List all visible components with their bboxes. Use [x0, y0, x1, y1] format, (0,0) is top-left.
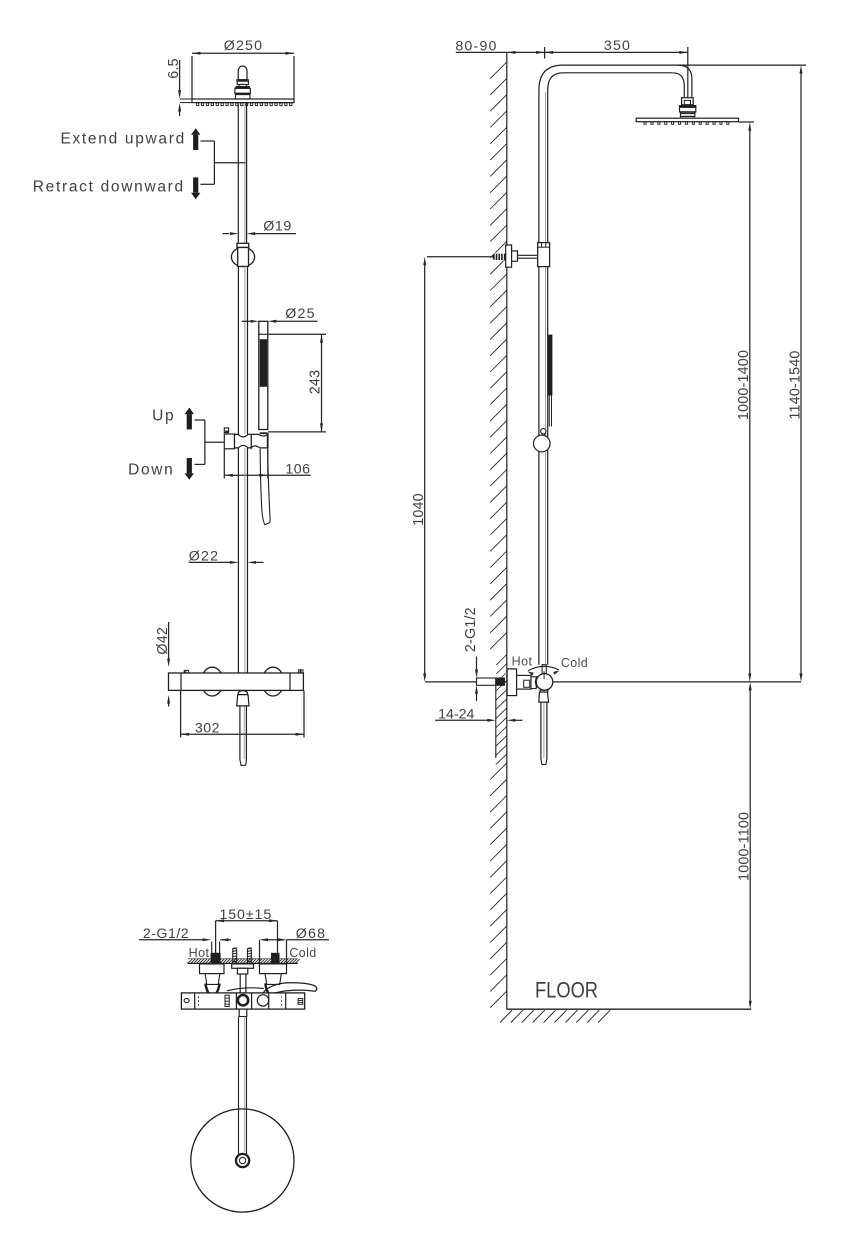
clamp screw detail	[225, 995, 229, 1006]
hand shower (side view)	[549, 335, 553, 395]
valve body circle	[542, 665, 546, 674]
cold knob circle	[257, 995, 268, 1006]
shower arm	[563, 64, 806, 66]
svg-text:Extend upward: Extend upward	[60, 130, 186, 147]
overhead shower head plate	[192, 99, 294, 103]
shower head ball connector stack	[238, 66, 247, 80]
svg-text:Hot: Hot	[512, 655, 533, 669]
wall band hatching	[188, 959, 192, 963]
overhead connector stack	[682, 98, 694, 105]
leader bracket up/down	[195, 419, 205, 421]
floor hatching	[500, 1010, 512, 1022]
cold eccentric union	[260, 964, 287, 974]
valve connector	[517, 675, 531, 689]
riser connection ring (bold)	[238, 995, 248, 1005]
slider ball joint	[237, 243, 249, 247]
svg-text:Up: Up	[152, 407, 175, 424]
dimension 1140-1540	[800, 70, 802, 677]
hand shower wand	[259, 321, 268, 429]
wall bracket flange	[506, 245, 512, 267]
svg-text:Retract downward: Retract downward	[33, 178, 185, 195]
pipe end cap	[238, 673, 247, 675]
slider bracket	[224, 428, 228, 433]
svg-text:1000-1100: 1000-1100	[737, 812, 753, 881]
dimension 1000-1100	[749, 687, 751, 1004]
diverter outlet cone	[238, 691, 248, 695]
cold inlet stub	[272, 953, 280, 963]
pipe to overhead (top view)	[238, 1009, 240, 1016]
valve top clips	[184, 670, 188, 673]
svg-text:Down: Down	[128, 461, 174, 478]
bracket clamp on pipe	[538, 243, 550, 267]
shower head nozzles	[197, 103, 199, 106]
crescent shade	[536, 677, 538, 688]
outlet cone below valve	[540, 690, 548, 692]
valve handle right	[262, 667, 284, 696]
finished wall strip	[495, 685, 497, 758]
overhead shower (top view)	[191, 1109, 294, 1212]
leader bracket	[201, 140, 215, 142]
inlet union side view	[477, 678, 496, 685]
nozzles (side)	[644, 122, 646, 125]
dotted line	[198, 997, 200, 1006]
svg-text:Cold: Cold	[561, 656, 588, 670]
svg-text:1000-1400: 1000-1400	[736, 350, 752, 420]
riser pipe side view	[545, 92, 547, 664]
svg-text:302: 302	[195, 721, 220, 737]
valve handle left	[201, 667, 223, 696]
floor line	[507, 1008, 751, 1010]
riser pipe (upper)	[244, 103, 246, 243]
svg-text:Ø25: Ø25	[285, 306, 315, 322]
svg-text:Ø250: Ø250	[224, 38, 264, 54]
svg-text:243: 243	[308, 370, 324, 394]
wall band bottom line	[187, 962, 297, 964]
svg-text:106: 106	[285, 461, 310, 477]
svg-text:2-G1/2: 2-G1/2	[463, 607, 479, 652]
wall screw right	[248, 948, 252, 964]
svg-text:1040: 1040	[411, 493, 427, 526]
hot inlet stub	[211, 942, 213, 954]
riser pipe (lower)	[244, 448, 246, 673]
wall screw left	[233, 948, 237, 964]
wall band top line	[187, 958, 297, 960]
wall hatching	[490, 62, 507, 79]
dimension 302	[180, 690, 182, 737]
svg-text:1140-1540: 1140-1540	[787, 350, 803, 419]
riser pipe (middle)	[244, 266, 246, 434]
dimension 1000-1400	[749, 127, 751, 677]
wall line	[506, 52, 508, 1009]
dimension 106	[223, 449, 225, 479]
right end detail	[298, 999, 303, 1005]
svg-text:Ø19: Ø19	[263, 219, 292, 235]
hot eccentric union	[200, 964, 225, 974]
svg-text:350: 350	[604, 38, 631, 54]
wall bracket screw	[427, 256, 491, 258]
valve escutcheon	[507, 669, 516, 696]
temperature control lever	[227, 988, 264, 991]
svg-text:FLOOR: FLOOR	[535, 978, 598, 1003]
dimension 243	[268, 333, 326, 335]
dimension 1040	[424, 262, 426, 676]
left end hole	[184, 999, 189, 1003]
slider ball side view	[541, 434, 543, 437]
extension line head bottom	[739, 121, 755, 123]
svg-text:Hot: Hot	[189, 946, 210, 960]
hand wand spout	[260, 449, 270, 525]
center inlet ring	[236, 1154, 249, 1167]
valve center line	[425, 681, 801, 683]
svg-text:Cold: Cold	[289, 946, 316, 960]
overhead shower plate (side)	[636, 118, 738, 122]
hose below valve	[543, 703, 545, 758]
center outlet union	[232, 964, 254, 968]
valve body bar	[169, 673, 304, 690]
valve body (top view)	[181, 993, 304, 1009]
shower hose	[243, 707, 245, 760]
bracket arm	[518, 254, 538, 256]
